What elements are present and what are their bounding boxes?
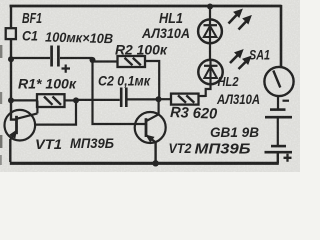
LED HL2 emission arrows xyxy=(230,50,251,69)
node dot top rail HL branch xyxy=(207,4,213,10)
node dot R1 tap xyxy=(8,97,14,103)
node dot R1 right xyxy=(73,97,79,103)
wire R3 riser to HL2 xyxy=(206,83,211,97)
node dot VT2 emitter on rail xyxy=(152,160,158,166)
battery GB1 xyxy=(265,101,293,164)
LED HL1 emission arrows xyxy=(229,10,251,30)
capacitor C2 xyxy=(121,88,158,108)
wire R1 right to C2 xyxy=(76,99,120,101)
wire right border down to SA1 xyxy=(280,5,283,67)
node dot C1-R2 junction xyxy=(90,57,96,63)
node dot C1 tap xyxy=(8,56,14,62)
LED HL2 xyxy=(198,60,222,85)
wire HL1 to HL2 xyxy=(209,43,211,60)
LED HL1 xyxy=(198,19,222,43)
wire SA1 to battery xyxy=(277,96,279,109)
transistor VT1 xyxy=(4,101,37,141)
resistor R2 xyxy=(93,56,160,99)
switch SA1 xyxy=(264,67,293,96)
wire top rail xyxy=(10,5,282,8)
wire VT1 collector link (down and left to circle edge) xyxy=(35,100,76,124)
wire BF1 upper lead xyxy=(10,5,12,29)
wire left branch below BF1 to VT1 base xyxy=(11,39,17,120)
wire VT2 collector vertical xyxy=(158,99,160,115)
wire bottom rail xyxy=(10,162,279,165)
wire cross coupling to VT2 base xyxy=(93,59,147,124)
wire VT2 emitter lead xyxy=(154,142,156,164)
capacitor C1 xyxy=(11,46,93,73)
wire VT1 emitter lead xyxy=(9,139,11,162)
resistor R1 xyxy=(11,94,76,107)
node dot VT2 collector junction xyxy=(156,96,162,102)
transistor VT2 xyxy=(135,112,166,143)
speaker BF1 xyxy=(6,28,16,39)
scan smudges left edge (decorative) xyxy=(0,45,2,58)
wire HL1 top lead xyxy=(209,7,211,21)
resistor R3 xyxy=(161,94,206,105)
